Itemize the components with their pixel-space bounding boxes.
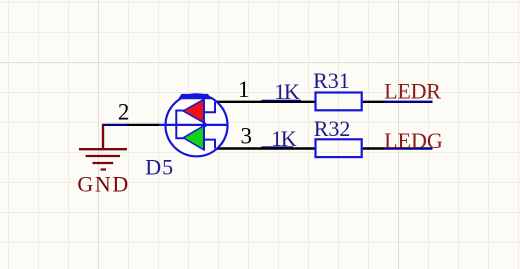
major grid line vertical x=98: [98, 0, 100, 269]
svg-text:3: 3: [241, 123, 253, 148]
svg-text:R32: R32: [314, 116, 351, 141]
svg-text:2: 2: [118, 100, 129, 125]
svg-text:LEDR: LEDR: [384, 79, 441, 104]
LED cathode bracket: [176, 111, 183, 139]
wire LEDR net navy: [384, 101, 433, 103]
pin 3 wire black: [215, 147, 315, 149]
svg-text:1: 1: [238, 77, 250, 102]
svg-text:1K: 1K: [274, 79, 300, 104]
wire R32 right pin black: [363, 147, 384, 149]
wire pin2 black segment: [127, 124, 161, 126]
svg-text:LEDG: LEDG: [384, 128, 443, 153]
svg-text:D5: D5: [145, 155, 174, 180]
junction dot at LED base/mid-line: [202, 123, 207, 128]
svg-text:1K: 1K: [271, 126, 297, 151]
wire GND net navy segment: [102, 124, 127, 126]
LED top step to pin 1: [204, 102, 215, 113]
LED flat-top bar trapezoid: [178, 94, 211, 99]
LED mid diameter line: [159, 124, 228, 126]
ground: [79, 125, 127, 170]
LED base vertical line: [203, 100, 205, 150]
resistor R32: [316, 139, 362, 157]
LED bottom step to pin 3: [204, 140, 215, 149]
value 1K underline artifact R32: [262, 146, 294, 148]
major grid line horizontal y=62: [0, 62, 520, 64]
pin 1 wire black: [215, 101, 315, 103]
svg-text:R31: R31: [313, 68, 350, 93]
LED green anode triangle: [183, 126, 204, 150]
resistor R31: [316, 93, 362, 111]
LED red anode triangle: [183, 99, 204, 123]
wire LEDG net navy: [384, 147, 433, 149]
wire R31 right pin black: [363, 101, 384, 103]
svg-text:GND: GND: [77, 171, 129, 196]
value 1K underline artifact R31: [262, 99, 302, 101]
LED D5 body circle: [166, 94, 228, 156]
major grid line vertical x=398: [398, 0, 400, 269]
